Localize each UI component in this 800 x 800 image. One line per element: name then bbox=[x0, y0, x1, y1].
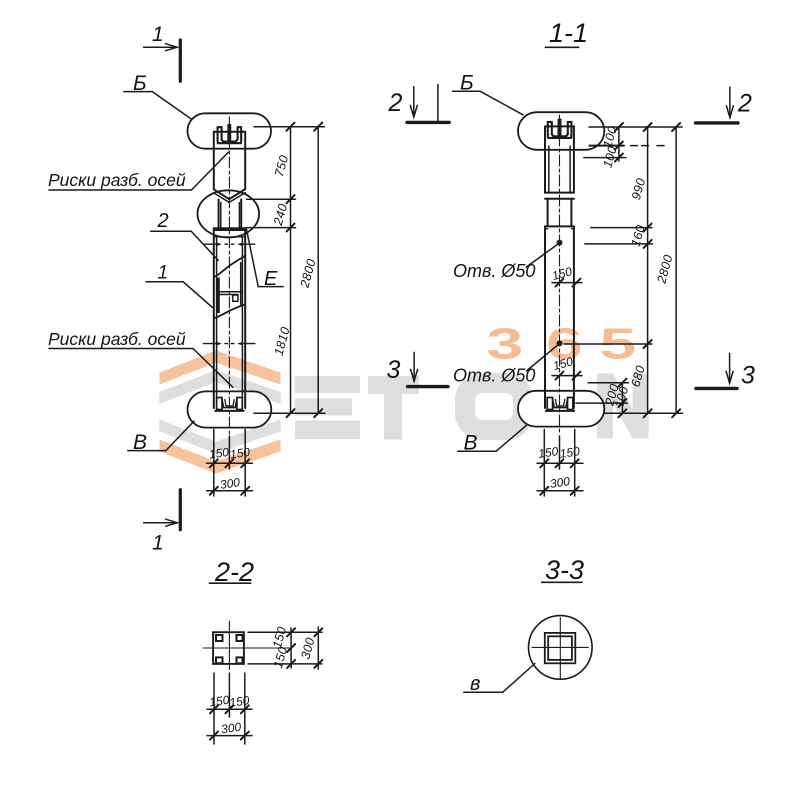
svg-text:В: В bbox=[464, 432, 478, 455]
leader Б bbox=[124, 91, 153, 93]
leader riski bottom bbox=[49, 348, 193, 350]
scarf joint V groove bbox=[214, 189, 245, 199]
section marker 2 left bbox=[407, 85, 449, 123]
hole bottom bbox=[557, 340, 563, 346]
extension line bottom bbox=[254, 412, 325, 414]
extension 100b bbox=[584, 157, 626, 159]
ticks bbox=[287, 123, 323, 418]
top fork embed bbox=[218, 125, 242, 143]
leader В right bbox=[458, 450, 496, 452]
extension bottom right bbox=[605, 412, 683, 414]
RIGHT VIEW labels, leaders, markers bbox=[453, 91, 559, 451]
bottom dims right 150 150 300 bbox=[543, 430, 545, 497]
bubble Б stadium top right bbox=[518, 112, 604, 150]
leader hole top bbox=[526, 244, 558, 267]
outer square 3-3 bbox=[545, 633, 576, 663]
rebar bar in cutout bbox=[216, 278, 220, 314]
section marker 1 bottom bbox=[144, 490, 181, 530]
svg-text:В: В bbox=[133, 431, 147, 454]
centerline column axis bbox=[228, 117, 230, 434]
section marker 1 top bbox=[144, 40, 181, 81]
svg-text:2: 2 bbox=[388, 89, 403, 117]
extension 160 bottom bbox=[585, 243, 653, 245]
letter O gray bbox=[465, 383, 523, 430]
ticks right bbox=[556, 123, 681, 417]
dim line 750/240/1810 bbox=[290, 127, 292, 414]
section marker 3 left bbox=[408, 352, 448, 386]
extension 100a bbox=[589, 145, 624, 147]
svg-text:Б: Б bbox=[133, 72, 147, 95]
svg-text:3-3: 3-3 bbox=[545, 555, 584, 585]
extension line top bbox=[254, 126, 324, 128]
extension 990 bottom bbox=[591, 227, 652, 229]
svg-text:Б: Б bbox=[460, 72, 474, 95]
section square bbox=[213, 632, 244, 664]
local cutout wavy break lines bbox=[214, 256, 245, 278]
letter N gray bbox=[597, 374, 613, 439]
hexagon upper gray chevron bbox=[160, 370, 281, 404]
inner square 3-3 bbox=[548, 636, 572, 660]
WATERMARK bbox=[160, 318, 649, 473]
svg-text:150: 150 bbox=[228, 693, 250, 710]
svg-text:300: 300 bbox=[549, 474, 571, 491]
svg-text:1-1: 1-1 bbox=[549, 18, 588, 48]
hexagon bottom orange chevron bbox=[160, 440, 281, 474]
letter E gray bbox=[295, 376, 360, 393]
LEFT VIEW dimensions bbox=[207, 123, 326, 496]
svg-text:Риски разб. осей: Риски разб. осей bbox=[48, 329, 186, 349]
axis mark row 2 bbox=[204, 343, 255, 345]
RIGHT VIEW dimensions bbox=[537, 123, 682, 496]
extension line collar bbox=[247, 227, 296, 229]
extension 100c bbox=[576, 402, 627, 404]
bubble В stadium bottom right bbox=[518, 391, 604, 427]
bubble Б stadium top bbox=[188, 113, 272, 148]
svg-text:3: 3 bbox=[387, 356, 401, 384]
svg-text:1: 1 bbox=[158, 263, 169, 284]
svg-text:300: 300 bbox=[219, 475, 241, 492]
svg-text:Отв. Ø50: Отв. Ø50 bbox=[453, 261, 535, 281]
axis mark row 1 bbox=[204, 243, 255, 245]
leader В bbox=[128, 450, 166, 452]
white mask right bottom stadium bbox=[518, 391, 604, 427]
neck edges right bbox=[547, 199, 549, 227]
rebar corner squares bbox=[216, 635, 243, 663]
extension hole 680 bbox=[564, 343, 652, 345]
centerline column axis right bbox=[559, 115, 561, 433]
hexagon top orange chevron bbox=[160, 351, 281, 385]
bubble В stadium bottom bbox=[188, 391, 272, 427]
extension top right bbox=[589, 126, 682, 128]
column top edge line right bbox=[545, 125, 574, 127]
svg-text:Е: Е bbox=[264, 268, 278, 290]
leader riski top bbox=[49, 189, 192, 191]
bottom fork hooks bbox=[215, 398, 243, 411]
centerlines 3-3 bbox=[559, 618, 561, 678]
collar lines right bbox=[545, 192, 574, 194]
step lines right bbox=[545, 225, 574, 227]
svg-text:150: 150 bbox=[208, 445, 230, 462]
svg-text:2: 2 bbox=[157, 210, 169, 232]
dim line 2800 bbox=[317, 127, 319, 414]
dim line 200/100 chain bbox=[621, 383, 623, 414]
column top edge line bbox=[214, 131, 245, 133]
detail circle bbox=[529, 616, 593, 680]
svg-text:150: 150 bbox=[208, 693, 230, 710]
svg-text:5: 5 bbox=[600, 318, 637, 367]
extension 200 bbox=[588, 382, 628, 384]
hole dim 150 bottom bbox=[552, 375, 582, 377]
collar lines bbox=[214, 227, 245, 229]
leader 1 bbox=[146, 281, 183, 283]
lower shaft edges right bbox=[544, 226, 546, 408]
narrow neck edges bbox=[218, 200, 220, 229]
svg-text:3: 3 bbox=[487, 318, 524, 367]
lower shaft edges bbox=[213, 228, 215, 408]
dim line 990/160/680 bbox=[647, 127, 649, 413]
dim line 2800 right bbox=[675, 127, 677, 413]
section centerlines bbox=[228, 621, 230, 669]
2-2 dimensions bbox=[207, 627, 322, 744]
cutout interior lines bbox=[220, 291, 243, 293]
svg-text:Отв. Ø50: Отв. Ø50 bbox=[453, 366, 535, 386]
top fork embed right bbox=[548, 120, 572, 138]
label в bbox=[464, 664, 535, 693]
svg-text:Риски разб. осей: Риски разб. осей bbox=[48, 170, 186, 190]
svg-text:150: 150 bbox=[537, 444, 559, 461]
leader E bbox=[258, 286, 283, 288]
LEFT VIEW labels and leaders bbox=[49, 92, 283, 451]
section marker 2 right bbox=[696, 87, 739, 123]
upper shaft edges bbox=[213, 132, 215, 190]
extension line V bottom bbox=[247, 198, 296, 200]
joint bubble ellipse bbox=[198, 190, 260, 237]
svg-text:1: 1 bbox=[152, 23, 164, 46]
hexagon lower gray chevron bbox=[160, 420, 281, 454]
white mask left bottom stadium bbox=[188, 391, 272, 427]
section marker 3 right bbox=[696, 353, 737, 388]
svg-text:в: в bbox=[470, 673, 480, 695]
leader 2 bbox=[151, 230, 191, 232]
svg-text:1: 1 bbox=[152, 532, 164, 555]
bottom fork hooks right bbox=[546, 398, 574, 411]
svg-text:150: 150 bbox=[559, 444, 581, 461]
leader hole bottom bbox=[526, 345, 558, 371]
hole top bbox=[557, 240, 563, 246]
svg-text:150: 150 bbox=[229, 445, 251, 462]
svg-text:2: 2 bbox=[737, 90, 752, 118]
svg-text:300: 300 bbox=[220, 720, 242, 737]
letter T gray bbox=[368, 376, 419, 394]
dim line 100/100 chain bbox=[618, 127, 620, 161]
hole dim 150 top bbox=[552, 282, 582, 284]
upper shaft edges right bbox=[544, 126, 546, 192]
bottom dims 150 150 300 bbox=[213, 430, 215, 497]
svg-text:3: 3 bbox=[741, 362, 755, 390]
leader Б right bbox=[453, 90, 480, 92]
